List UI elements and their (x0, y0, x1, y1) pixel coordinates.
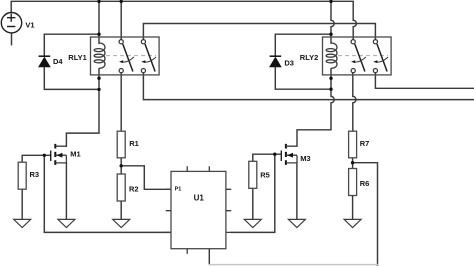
wire U1 bottom pin2 down (208, 249, 210, 265)
RLY1 body box (91, 37, 160, 75)
svg-text:R3: R3 (30, 170, 40, 179)
junction RLY2 coil top node (329, 33, 332, 36)
resistor R7 (349, 131, 357, 158)
wire RLY2 switch2 bottom to right edge (load) (375, 73, 474, 89)
svg-text:D3: D3 (284, 59, 294, 68)
transistor M1 (51, 144, 67, 165)
RLY2 pole2 bottom pin (373, 69, 377, 73)
wire D4 anode to RLY1 coil bottom node (44, 67, 99, 90)
junction M3 gate node (273, 153, 276, 156)
RLY2 body box (323, 37, 392, 75)
ground under R2 (113, 219, 130, 227)
RLY1 pole1 switch arm (123, 44, 133, 72)
IC U1 (166, 166, 231, 254)
ground under R3 (14, 219, 31, 227)
terminal RLY1 coil bottom (97, 77, 100, 80)
wire RLY2 coil bottom to M3 drain (hop over crossing wire) (297, 69, 334, 146)
RLY2 actuation dashed line (338, 55, 388, 57)
RLY1 coil (94, 43, 105, 68)
svg-text:V1: V1 (25, 21, 34, 30)
wire R7 bottom to R6 top through node (352, 158, 354, 169)
wire R5 bottom to ground (252, 188, 254, 219)
junction top rail at RLY2 coil (329, 0, 332, 3)
RLY2 pole2 switch arm (377, 44, 387, 72)
ground under M1 (58, 219, 75, 227)
wire M3 source to ground (296, 163, 298, 219)
svg-text:R1: R1 (129, 139, 139, 148)
svg-text:M1: M1 (70, 150, 80, 159)
wire R7/R6 node right then down to bottom edge (353, 163, 378, 266)
diode D3 (270, 56, 282, 67)
ground under R5 (244, 219, 261, 227)
svg-text:U1: U1 (194, 194, 205, 203)
RLY1 pole2 switch arm (145, 44, 155, 72)
wire RLY2 switch1 bottom to R7 (hop over crossing wire) (353, 73, 356, 132)
RLY1 pole2 top pin (141, 40, 145, 44)
RLY1 pole2 bottom pin (141, 69, 145, 73)
svg-text:R6: R6 (360, 179, 370, 188)
wire R1 bottom to R2 top through node (120, 158, 122, 174)
wire D4 cathode to RLY1 coil top node (44, 34, 99, 56)
resistor R5 (249, 161, 257, 188)
wire M1 gate node down and to U1 left pin3 (44, 155, 171, 232)
svg-text:M3: M3 (300, 154, 310, 163)
RLY2 coil (326, 43, 337, 68)
wire RLY1 switch2 top to RLY2 switch2 top (143, 24, 375, 40)
junction R7/R6 node (351, 161, 354, 164)
RLY1 actuation dashed line (106, 55, 156, 57)
svg-text:R7: R7 (360, 139, 370, 148)
wire R6 bottom to ground (352, 196, 354, 220)
RLY2 pole1 bottom pin (351, 69, 355, 73)
wire D3 anode to RLY2 coil bottom node (275, 67, 331, 89)
wire R2 bottom to ground (120, 201, 122, 219)
svg-text:R5: R5 (260, 171, 270, 180)
junction D4 anode node (97, 88, 100, 91)
RLY2 pole1 arrow (354, 57, 366, 62)
svg-text:RLY1: RLY1 (68, 53, 86, 62)
junction RLY1 coil top node (97, 33, 100, 36)
RLY1 pole1 bottom pin (119, 69, 123, 73)
resistor R6 (349, 169, 357, 196)
svg-text:D4: D4 (53, 57, 63, 66)
junction top rail at RLY1 switch1 (120, 0, 123, 3)
junction D3 anode node (329, 88, 332, 91)
ground under R6 (344, 219, 361, 227)
resistor R3 (18, 162, 26, 189)
wire RLY1 switch1 bottom to R1 (120, 73, 122, 132)
resistor R2 (117, 174, 125, 201)
terminal RLY2 coil bottom (329, 77, 332, 80)
wire R5 top to M3 gate node (253, 154, 281, 161)
svg-text:RLY2: RLY2 (300, 53, 318, 62)
wire M1 source to ground (65, 163, 67, 219)
diode D4 (39, 56, 51, 67)
resistor R1 (117, 131, 125, 158)
junction M1 gate node (43, 154, 46, 157)
RLY2 pole2 arrow (376, 57, 388, 62)
svg-text:R2: R2 (129, 184, 139, 193)
relay RLY2 (323, 37, 392, 75)
svg-text:P1: P1 (175, 187, 182, 193)
wire RLY1 switch2 bottom to right edge (load) (143, 73, 474, 100)
wire RLY1 switch1 top from rail (120, 1, 122, 39)
voltage source V1 (1, 13, 21, 33)
junction R1/R2 node (120, 164, 123, 167)
RLY2 pole1 top pin (351, 40, 355, 44)
transistor M3 (281, 144, 297, 165)
wire RLY1 coil top from rail (98, 1, 100, 43)
ground under M3 (288, 219, 305, 227)
wire RLY1 coil bottom to M1 drain (66, 69, 99, 146)
wire R3 bottom to ground (21, 189, 23, 219)
wire bottom return (clipped at image edge, light) (209, 264, 377, 266)
wire R1/R2 node to U1 pin P1 (121, 166, 171, 190)
relay RLY1 (91, 37, 160, 75)
wire M3 gate node down to U1 right pin3 (231, 154, 275, 232)
wire R3 top to M1 gate node (22, 155, 51, 162)
wire top rail from V1 to RLY2 switch1 top (with hop over crossing wire) (11, 1, 356, 39)
RLY1 pole2 arrow (144, 57, 156, 62)
wire RLY2 coil top from rail (hop over crossing wire) (331, 1, 334, 43)
wire D3 cathode to RLY2 coil top node (275, 34, 331, 56)
junction top rail at RLY1 coil (97, 0, 100, 3)
RLY2 pole2 top pin (373, 40, 377, 44)
wire V1 bottom stub (11, 33, 13, 45)
RLY2 pole1 switch arm (355, 44, 365, 72)
RLY1 pole1 arrow (122, 57, 134, 62)
RLY1 pole1 top pin (119, 40, 123, 44)
